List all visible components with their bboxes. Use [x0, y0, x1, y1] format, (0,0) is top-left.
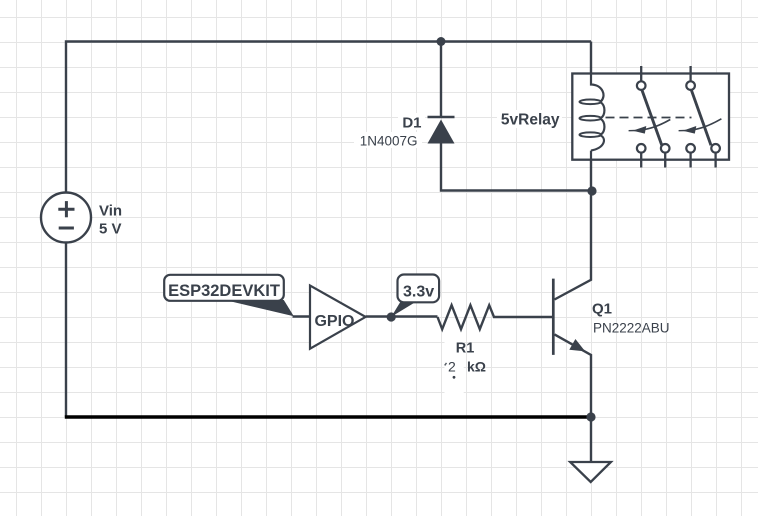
svg-text:ESP32DEVKIT: ESP32DEVKIT [168, 282, 280, 300]
svg-text:Q1: Q1 [592, 301, 612, 318]
svg-text:1N4007G: 1N4007G [360, 134, 418, 149]
svg-text:5 V: 5 V [99, 221, 122, 238]
svg-text:GPIO: GPIO [314, 313, 354, 330]
svg-text:R1: R1 [456, 340, 475, 356]
svg-text:5vRelay: 5vRelay [501, 112, 560, 129]
svg-text:Vin: Vin [99, 203, 122, 220]
svg-text:PN2222ABU: PN2222ABU [593, 321, 670, 336]
svg-text:kΩ: kΩ [467, 359, 486, 375]
svg-text:2: 2 [448, 359, 456, 375]
svg-text:3.3v: 3.3v [403, 283, 434, 300]
svg-text:D1: D1 [402, 115, 421, 132]
